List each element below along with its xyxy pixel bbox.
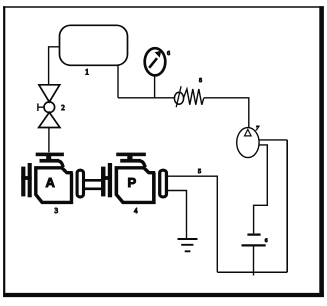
pump 7 triangle (245, 129, 252, 136)
svg-text:6: 6 (167, 51, 170, 57)
main line (118, 97, 174, 99)
wire spring to pump (204, 98, 249, 128)
svg-text:7: 7 (256, 125, 260, 132)
wire pump to right rail (259, 139, 288, 141)
wire pump to battery (254, 145, 268, 234)
border frame top (3, 6, 324, 8)
border frame left (3, 6, 5, 297)
gauge needle (149, 58, 157, 68)
relief valve slash (176, 86, 181, 107)
wire engine to ground (168, 191, 187, 239)
border frame right (319, 6, 324, 297)
engine P (4) (101, 153, 166, 203)
svg-text:2: 2 (61, 104, 65, 112)
shaft coupling lower (85, 187, 102, 190)
svg-text:A: A (46, 175, 56, 190)
battery lead (253, 245, 255, 275)
engine A (3) (21, 153, 83, 203)
svg-text:6: 6 (265, 238, 268, 244)
wire node 5 (168, 176, 217, 272)
valve 2 handle (38, 103, 44, 111)
valve 2 ball (44, 102, 55, 113)
battery 6 bottom plate (242, 244, 266, 246)
ground (178, 238, 198, 240)
pump 7 body (237, 128, 259, 158)
wire tank to valve (49, 47, 60, 85)
svg-text:5: 5 (198, 168, 201, 175)
shaft coupling upper (85, 179, 102, 182)
right rail (286, 140, 288, 272)
battery 6 top plate (247, 233, 260, 235)
tank 1 (60, 25, 128, 65)
valve 2 lower triangle (39, 112, 60, 127)
svg-text:8: 8 (199, 78, 202, 84)
relief valve 8 body (174, 92, 183, 104)
gauge needle head (155, 51, 162, 58)
svg-text:4: 4 (134, 207, 138, 215)
svg-text:1: 1 (85, 67, 89, 76)
svg-text:P: P (127, 175, 136, 190)
spring 8 (183, 89, 203, 105)
wire valve to engine A (48, 128, 50, 153)
border frame bottom (3, 293, 324, 297)
svg-text:3: 3 (55, 207, 59, 215)
gauge 6 body (145, 48, 166, 75)
wire tank to main line (117, 65, 119, 98)
bottom rail (217, 271, 287, 273)
valve 2 upper triangle (39, 85, 60, 102)
gauge stem (154, 76, 156, 98)
